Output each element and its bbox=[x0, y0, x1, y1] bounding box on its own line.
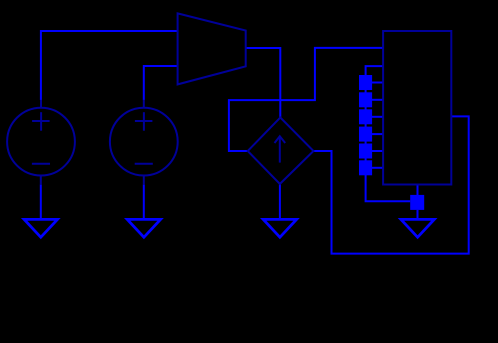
wire pin stub square 4 bbox=[372, 133, 383, 135]
buffer U1 trapezoid bbox=[178, 13, 246, 84]
wire diamond right vertex loop to IC right pin bbox=[314, 116, 469, 253]
ground G3 bbox=[260, 218, 300, 239]
pin square 1 bbox=[359, 75, 372, 90]
pin square 6 bbox=[359, 160, 372, 175]
pin square 5 bbox=[359, 144, 372, 159]
wire pin stub square 1 bbox=[372, 82, 383, 84]
voltage source V1 bbox=[7, 100, 75, 185]
ground G2 bbox=[124, 218, 164, 239]
IC block U2 bbox=[383, 31, 451, 185]
wire V1 top to buffer input 1 bbox=[41, 31, 178, 100]
wire V2 bottom to ground bbox=[143, 185, 145, 220]
voltage source V2 bbox=[110, 100, 178, 185]
wire pin stub square 6 bbox=[372, 167, 383, 169]
wire diamond bottom to ground bbox=[279, 184, 281, 220]
wire pin stub square 2 bbox=[372, 99, 383, 101]
pin square 2 bbox=[359, 92, 372, 107]
ground G4 bbox=[398, 218, 438, 239]
pin square 4 bbox=[359, 127, 372, 142]
wire V1 bottom to ground bbox=[40, 185, 42, 220]
wire bottom square to ground bbox=[417, 210, 419, 220]
wire diamond left vertex to IC pin 1 bbox=[229, 48, 383, 151]
pin square bottom bbox=[410, 195, 424, 210]
current source diamond bbox=[248, 118, 314, 184]
wire pin stub square 3 bbox=[372, 116, 383, 118]
wire pin stub square 5 bbox=[372, 150, 383, 152]
wire buffer output to diamond top node bbox=[246, 48, 281, 118]
pin square 3 bbox=[359, 109, 372, 124]
ground G1 bbox=[21, 218, 61, 239]
wire V2 top to buffer input 2 bbox=[144, 66, 178, 100]
wire pin bus vertical with top tap to IC bbox=[366, 66, 411, 201]
wire IC bottom pin stub bbox=[417, 185, 419, 195]
